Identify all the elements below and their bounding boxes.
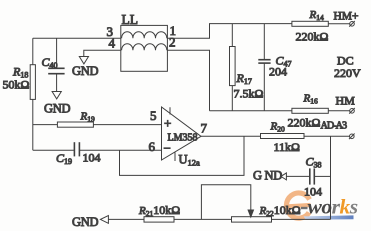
capacitor C19 (horizontal, 104) (33, 142, 162, 156)
potentiometer R22 body (232, 217, 272, 222)
svg-text:R16: R16 (303, 93, 318, 106)
svg-text:5: 5 (150, 108, 157, 123)
wire: R22 right end to riser (272, 218, 331, 220)
resistor R17 (vertical, 7.5k) (230, 24, 236, 111)
svg-text:104: 104 (83, 151, 101, 165)
ground arrow bottom left (100, 216, 108, 224)
wiper link: R21 node up and over to wiper (201, 185, 250, 220)
svg-text:AD-A3: AD-A3 (321, 121, 347, 132)
transformer LL box (121, 25, 168, 71)
capacitor C47 (258, 24, 270, 111)
wire: ground to R21 (108, 218, 144, 220)
resistor R21 (horizontal, 10k) (144, 217, 174, 222)
op-amp U12a LM358 (162, 107, 202, 161)
resistor R18 (vertical, 50k) (30, 38, 35, 150)
terminal AD-A3 (349, 134, 355, 140)
svg-text:4: 4 (109, 36, 116, 51)
svg-text:G ND: G ND (253, 169, 282, 183)
svg-text:HM: HM (336, 94, 356, 108)
svg-text:+: + (164, 116, 171, 131)
capacitor C38 (horizontal, 104) (287, 168, 331, 184)
svg-text:220kΩ: 220kΩ (288, 116, 321, 130)
svg-text:R19: R19 (80, 111, 95, 124)
resistor R19 (horizontal) (33, 122, 162, 127)
ground under C40 (52, 92, 61, 99)
e-works watermark logo (286, 193, 358, 220)
svg-text:50kΩ: 50kΩ (3, 78, 30, 92)
ground arrow at C38 (281, 173, 287, 180)
wire: input top from R18 to LL pin 3 (33, 37, 121, 39)
wire: bottom rail to R16 (210, 110, 292, 112)
svg-text:R2110kΩ: R2110kΩ (138, 203, 180, 218)
svg-text:104: 104 (304, 185, 322, 199)
wire: op-amp output to R20 (201, 135, 261, 137)
svg-text:C19: C19 (56, 151, 72, 166)
svg-text:204: 204 (269, 65, 287, 79)
terminal HM (349, 108, 355, 114)
svg-text:LM358: LM358 (168, 133, 198, 144)
svg-text:220V: 220V (334, 66, 361, 80)
wiper arrow of R22 (248, 210, 253, 217)
svg-text:C38: C38 (306, 155, 322, 170)
svg-text:GND: GND (44, 102, 70, 116)
svg-text:LL: LL (122, 12, 139, 27)
svg-text:GND: GND (72, 215, 98, 229)
ground at LL pin 4 (79, 57, 88, 64)
svg-text:U12a: U12a (179, 153, 201, 168)
svg-text:R17: R17 (236, 71, 252, 86)
svg-text:HM+: HM+ (334, 11, 359, 23)
resistor R20 (horizontal, 11k) (261, 134, 350, 139)
resistor R14 (horizontal, 220k) (292, 21, 350, 26)
svg-text:220kΩ: 220kΩ (296, 30, 329, 44)
capacitor C40 (48, 38, 64, 91)
wire: LL pin 2 down to bottom rail (167, 50, 209, 111)
svg-text:7.5kΩ: 7.5kΩ (234, 87, 264, 101)
winding row 1 of LL (122, 32, 167, 38)
wire: R20 node down to bottom loop (330, 136, 332, 219)
resistor R16 (horizontal, 220k) (292, 108, 350, 113)
wire: LL pin 1 up to top rail (167, 24, 292, 39)
feedback wire: pin 6 node down, right, up to output (120, 136, 245, 175)
svg-text:6: 6 (149, 139, 156, 154)
svg-text:11kΩ: 11kΩ (274, 140, 301, 154)
svg-text:R14: R14 (309, 9, 324, 22)
svg-text:R2210kΩ: R2210kΩ (259, 203, 301, 218)
wire: R21 to potentiometer R22 (174, 218, 232, 220)
svg-text:2: 2 (169, 35, 176, 50)
svg-text:7: 7 (201, 121, 208, 136)
wire: LL pin 4 to ground (84, 50, 121, 56)
svg-text:GND: GND (72, 64, 98, 78)
svg-text:R20: R20 (270, 121, 285, 134)
svg-text:C40: C40 (42, 55, 58, 70)
terminal HM+ (349, 21, 355, 27)
winding row 2 of LL (122, 44, 167, 50)
